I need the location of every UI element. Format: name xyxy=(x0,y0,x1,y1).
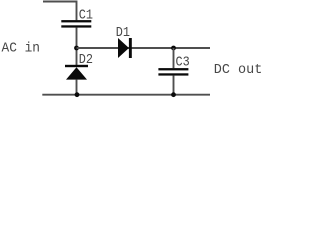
node junction D2/bottom rail xyxy=(75,92,80,97)
svg-text:C1: C1 xyxy=(79,8,93,24)
diode D2 xyxy=(65,65,88,80)
node junction D1/C3 xyxy=(171,46,176,51)
wire bottom rail xyxy=(42,94,210,96)
svg-text:DC out: DC out xyxy=(214,62,262,78)
wire D2 anode to bottom rail xyxy=(76,80,78,95)
wire mid rail to DC out xyxy=(77,47,211,49)
svg-text:D1: D1 xyxy=(116,25,130,41)
svg-text:D2: D2 xyxy=(79,52,93,68)
wire C3 bottom xyxy=(173,75,175,94)
wire C1 bottom to D2 xyxy=(76,27,78,65)
svg-text:C3: C3 xyxy=(176,54,190,70)
capacitor C3 xyxy=(158,68,188,76)
svg-text:AC in: AC in xyxy=(2,41,41,57)
wire C3 top xyxy=(173,48,175,68)
node junction C3/bottom rail xyxy=(171,92,176,97)
capacitor C1 xyxy=(61,20,91,27)
node junction C1/D1/D2 xyxy=(74,46,79,51)
wire top AC input rail xyxy=(43,2,77,21)
diode D1 xyxy=(118,38,132,58)
